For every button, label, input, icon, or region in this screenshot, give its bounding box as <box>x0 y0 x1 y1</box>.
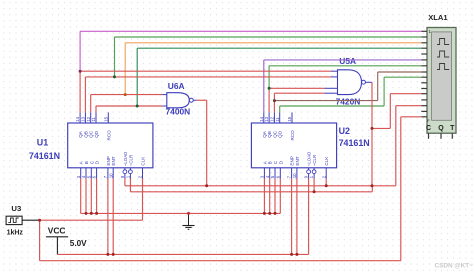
svg-text:T: T <box>450 125 455 132</box>
U2 pin CLK stub <box>325 168 327 179</box>
svg-text:14: 14 <box>259 116 264 121</box>
clock source U3 symbol <box>6 216 22 224</box>
svg-text:RCO: RCO <box>106 130 111 141</box>
svg-text:12: 12 <box>86 116 91 121</box>
svg-text:VCC: VCC <box>48 225 66 235</box>
svg-text:XLA1: XLA1 <box>428 13 448 22</box>
U2 pin ENP stub <box>291 168 293 179</box>
junction U6A output on load line <box>205 184 208 187</box>
wire clear line U1 ~CLR to junction <box>129 179 131 192</box>
svg-text:C: C <box>426 125 431 132</box>
svg-text:QB: QB <box>83 131 88 138</box>
svg-text:ENT: ENT <box>111 156 116 165</box>
svg-text:QD: QD <box>94 130 99 138</box>
XLA1 left input pin stubs 1-16 <box>421 30 427 32</box>
svg-text:1kHz: 1kHz <box>7 230 24 237</box>
U2 pin QA stub <box>263 112 265 123</box>
svg-text:B: B <box>268 161 273 164</box>
wire clock bottom rail to XLA1 ch16 <box>39 220 41 261</box>
junction U2 ~CLR on clear line <box>313 190 316 193</box>
svg-text:ENT: ENT <box>295 156 300 165</box>
svg-text:11: 11 <box>91 117 96 122</box>
logic analyzer XLA1 body <box>427 28 456 134</box>
svg-text:QD: QD <box>278 130 283 138</box>
wire U1 QB riser and U5A input2 line <box>84 77 86 113</box>
wire net QD-U1 teal rail to XLA1 ch4 <box>137 47 421 49</box>
U2 pin QB stub <box>268 112 270 123</box>
svg-text:CLK: CLK <box>324 156 329 166</box>
wire ground rail A-D inputs <box>81 212 281 214</box>
svg-text:~LOAD: ~LOAD <box>123 152 128 167</box>
svg-text:QB: QB <box>267 131 272 138</box>
junction U2 CLK on load line <box>325 184 328 187</box>
svg-text:74161N: 74161N <box>339 138 370 148</box>
U1 pin C stub <box>90 168 92 179</box>
junction ground stem <box>187 212 190 215</box>
U1 pin ~CLR stub with bubble <box>129 168 131 170</box>
wire net QA-U1 magenta rail to XLA1 ch1 <box>80 30 421 32</box>
svg-text:QC: QC <box>272 130 277 138</box>
svg-text:U1: U1 <box>37 137 48 147</box>
U1 pin ENT stub <box>112 168 114 179</box>
U1 pin ~LOAD stub with bubble <box>124 168 126 170</box>
U6A output pin stub <box>193 99 197 101</box>
svg-text:14: 14 <box>75 116 80 121</box>
junctions VCC rail <box>106 253 109 256</box>
U1 pin B stub <box>85 168 87 179</box>
U1 pin D stub <box>96 168 98 179</box>
wire U5A output drop <box>371 82 373 186</box>
svg-text:12: 12 <box>270 116 275 121</box>
wire net QB-U2 green rail to XLA1 ch7 <box>269 65 421 67</box>
junction load line / U5A output <box>371 184 374 187</box>
U2 pin ENT stub <box>296 168 298 179</box>
svg-text:QA: QA <box>78 130 83 138</box>
wire U1 ENP riser <box>107 179 109 255</box>
wire U1 QD riser and U6A input2 line <box>95 106 97 112</box>
junctions ground rail <box>85 212 88 215</box>
junction ch12 branch on U5A drop <box>371 127 374 130</box>
U1 pin ENP stub <box>107 168 109 179</box>
svg-text:ENP: ENP <box>106 156 111 165</box>
U1 pin A stub <box>80 168 82 179</box>
wire VCC rail <box>57 253 308 255</box>
wire U1 QC riser and U6A input1 line <box>90 95 92 113</box>
wire net QB-U1 green rail to XLA1 ch2 <box>115 36 422 38</box>
wire clock to U1 CLK <box>40 219 143 221</box>
NAND gate U6A 7400N <box>167 93 190 108</box>
wire U2 ~LOAD riser to VCC rail <box>308 179 310 255</box>
svg-text:7420N: 7420N <box>336 96 361 106</box>
U5A input pin stubs <box>331 70 338 72</box>
wire load line U1 ~LOAD to U5A output <box>124 179 126 186</box>
XLA1 bottom pins C Q T <box>428 133 430 139</box>
svg-text:15: 15 <box>103 116 108 121</box>
svg-text:74161N: 74161N <box>29 151 60 161</box>
svg-text:~CLR: ~CLR <box>312 155 317 166</box>
junction QA rail tap <box>79 70 82 73</box>
junction QD rail tap <box>136 105 139 108</box>
svg-text:10: 10 <box>292 173 297 178</box>
wire U2 ENP riser <box>291 179 293 255</box>
svg-text:~CLR: ~CLR <box>128 155 133 166</box>
wire U2 QB red riser and U5A input3 line <box>268 88 270 112</box>
svg-text:Q: Q <box>438 125 444 132</box>
svg-text:U6A: U6A <box>168 81 185 91</box>
svg-text:RCO: RCO <box>290 130 295 141</box>
U1 pin QB stub <box>84 112 86 123</box>
svg-text:U5A: U5A <box>339 56 356 66</box>
U2 pin B stub <box>269 168 271 179</box>
wire XLA1 ch12 branch <box>372 127 390 129</box>
U6A input pin stubs <box>162 94 167 96</box>
U2 pin RCO stub <box>291 112 293 123</box>
U1 pin CLK stub <box>142 168 144 179</box>
U1 pin QD stub <box>95 112 97 123</box>
wire net QC-U1 orange rail to XLA1 ch3 <box>125 42 421 44</box>
svg-text:11: 11 <box>275 117 280 122</box>
junction QC rail tap <box>124 93 127 96</box>
wire U2 ~CLR riser <box>313 179 315 192</box>
U2 pin QD stub <box>279 112 281 123</box>
junction U2 QB green/red <box>268 87 271 90</box>
wire XLA1 ch14 branch <box>372 185 396 187</box>
wire U1 QA riser and U5A input1 line <box>79 71 81 112</box>
svg-text:CLK: CLK <box>141 156 146 166</box>
junction U3 output node <box>38 219 41 222</box>
U1 pin RCO stub <box>107 112 109 123</box>
ground <box>188 213 190 225</box>
svg-text:13: 13 <box>264 116 269 121</box>
svg-text:B: B <box>84 161 89 164</box>
wire net QA-U2 purple rail to XLA1 ch6 <box>264 59 422 61</box>
wire U3 output stub <box>22 219 39 221</box>
NAND gate U5A 7420N (4-input) <box>338 70 362 95</box>
svg-text:13: 13 <box>81 116 86 121</box>
VCC power symbol <box>46 236 68 238</box>
wire U2 CLK riser <box>325 179 327 186</box>
svg-text:5.0V: 5.0V <box>70 239 87 248</box>
U5A output pin stub <box>366 81 373 83</box>
wire U6A output to load/clear line <box>197 99 207 101</box>
svg-text:10: 10 <box>108 173 113 178</box>
counter U2 74161N body <box>251 123 336 168</box>
U2 pin C stub <box>274 168 276 179</box>
svg-text:ENP: ENP <box>290 156 295 165</box>
U2 pin A stub <box>263 168 265 179</box>
U2 pin D stub <box>279 168 281 179</box>
svg-text:15: 15 <box>287 116 292 121</box>
wire brown tap to XLA1 ch8 <box>274 100 377 102</box>
svg-text:7400N: 7400N <box>166 107 191 117</box>
svg-text:U3: U3 <box>11 204 21 213</box>
junction brown tap on U2 QC riser <box>273 99 276 102</box>
wire U1 ENT riser <box>112 179 114 255</box>
U2 pin QC stub <box>273 112 275 123</box>
svg-text:QC: QC <box>89 130 94 138</box>
wire U2 QC riser and U5A input4 line <box>273 93 275 112</box>
U1 pin QA stub <box>79 112 81 123</box>
svg-text:~LOAD: ~LOAD <box>307 152 312 167</box>
wire U2 ENT riser <box>296 179 298 255</box>
U2 pin ~LOAD stub with bubble <box>308 168 310 170</box>
U2 pin ~CLR stub with bubble <box>313 168 315 170</box>
counter U1 74161N body <box>68 123 153 168</box>
XLA1 screen waveform glyphs <box>437 39 449 45</box>
junction QB rail tap <box>113 75 116 78</box>
svg-text:U2: U2 <box>339 126 350 136</box>
svg-text:QA: QA <box>262 130 267 138</box>
U1 pin QC stub <box>90 112 92 123</box>
wire U2 QD riser green to XLA1 ch9 <box>279 106 281 112</box>
svg-text:CSDN @KT~: CSDN @KT~ <box>435 263 474 270</box>
